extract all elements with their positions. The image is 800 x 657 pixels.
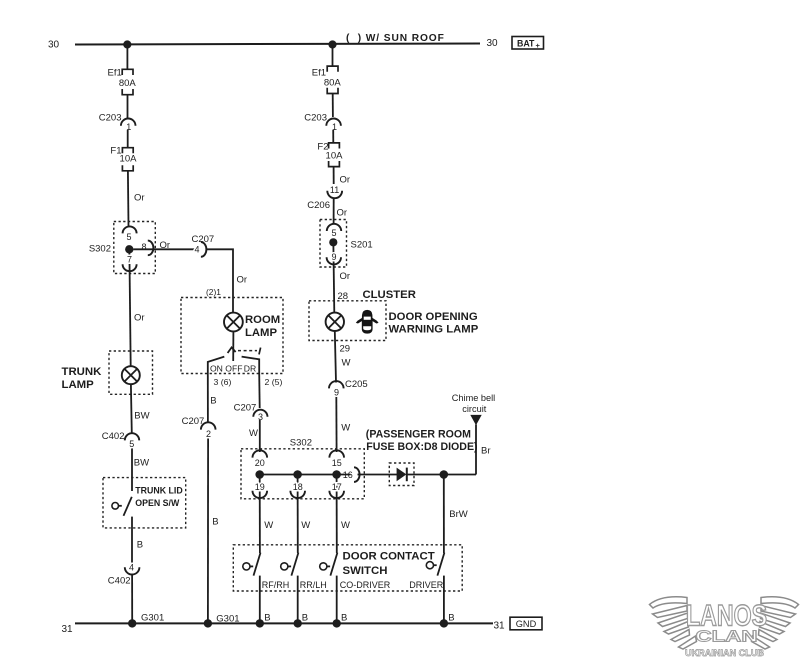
svg-text:2 (5): 2 (5) [265,377,283,387]
svg-text:GND: GND [516,619,537,629]
svg-text:B: B [210,395,216,406]
wire RF/RH to ground, colour B [260,576,271,624]
ground junction CO-DRIVER [333,619,341,627]
svg-text:circuit: circuit [462,404,486,414]
node splice dot 15/17 [332,470,341,479]
svg-text:W: W [301,520,310,531]
svg-text:+: + [536,41,541,50]
wire C402-5 to trunk lid switch, colour BW [132,445,149,492]
svg-text:Or: Or [160,240,171,251]
switch: door contact DRIVER [426,553,444,576]
svg-text:C207: C207 [234,402,257,413]
svg-text:5: 5 [331,228,336,238]
svg-text:20: 20 [255,458,265,468]
label (PASSENGER ROOM FUSE BOX:D8 DIODE) [366,428,478,453]
wire diode to chime bell circuit [407,474,476,476]
fuse Ef1 (left) 80A [108,68,137,95]
S302 pin 19 [253,482,268,498]
wiper travel dashes [238,348,261,355]
switch: door contact CO-DRIVER [320,553,338,576]
S302 pin 7 [123,255,137,272]
svg-text:5: 5 [126,232,131,242]
svg-text:B: B [212,516,218,527]
svg-text:18: 18 [293,482,303,492]
wire F2 to connector 11, colour Or [334,167,350,186]
svg-text:S201: S201 [351,240,373,251]
wire switch ON leg to C207-2, colour B [208,374,217,423]
door contact switch box [233,545,462,591]
svg-text:B: B [448,612,454,623]
wire switch DR leg to C207-3 [258,374,261,409]
node splice dot 18 [293,470,302,479]
svg-text:C203: C203 [304,113,327,124]
labels ON OFF DR [210,363,256,373]
svg-text:OPEN S/W: OPEN S/W [135,498,180,508]
svg-text:ON: ON [210,363,223,373]
switch: door contact RR/LH [281,553,299,576]
svg-text:Or: Or [340,271,351,282]
ground G301 (room lamp) [204,614,240,628]
svg-text:FUSE BOX:D8 DIODE): FUSE BOX:D8 DIODE) [366,441,477,453]
svg-text:31: 31 [494,620,506,631]
connector C402 pin 5 [102,431,139,449]
wire CO-DRIVER to ground, colour B [337,576,348,624]
splice box S201 [320,220,373,268]
wire C402-4 to ground [131,574,133,623]
svg-text:G301: G301 [216,614,239,625]
node 31 ground bus [62,620,506,635]
svg-text:C207: C207 [182,416,205,427]
node 30 battery bus [48,38,498,50]
svg-text:C206: C206 [307,200,330,211]
BAT+ terminal box [512,37,544,51]
svg-text:B: B [137,540,143,551]
splice box S302 (left) [89,222,155,274]
ground junction RF/RH [256,619,264,627]
svg-text:(PASSENGER ROOM: (PASSENGER ROOM [366,428,471,440]
wire lamp to switch wiper [232,331,234,361]
S302 pin 15 [329,450,344,468]
connector C206 pin 11 [307,185,342,211]
S302 pin 18 [290,482,305,498]
svg-text:DOOR CONTACT: DOOR CONTACT [343,551,435,563]
svg-text:DRIVER: DRIVER [409,580,444,590]
GND terminal box [510,617,542,630]
wire S302-17 to door switch CO-DRIVER, colour W [337,479,350,554]
wire RR/LH to ground, colour B [298,576,308,624]
wire up to chime bell, colour Br [476,425,491,475]
svg-text:BrW: BrW [449,509,468,520]
S302 pin 17 [329,482,344,498]
wire S302-19 to door switch RF/RH, colour W [260,479,274,554]
svg-text:10A: 10A [326,151,344,162]
svg-text:CLAN: CLAN [696,629,758,646]
svg-text:Or: Or [237,275,248,286]
svg-text:3 (6): 3 (6) [214,377,232,387]
svg-text:TRUNK LID: TRUNK LID [135,486,182,496]
label DOOR CONTACT SWITCH [343,551,435,577]
svg-text:C205: C205 [345,379,368,390]
wire S302-18 to door switch RR/LH, colour W [298,479,311,554]
wire F1 to splice S302, colour Or [128,171,145,226]
wire C203 to fuse F1 [127,130,129,148]
off-page arrow to chime bell circuit [470,415,481,425]
svg-text:WARNING LAMP: WARNING LAMP [389,323,479,335]
lamp: door opening warning lamp [326,313,344,331]
svg-text:W: W [341,422,350,433]
svg-text:C402: C402 [108,576,131,587]
svg-text:30: 30 [48,39,60,50]
switch wiper arrow (lamp switch) [228,347,236,353]
wire Ef1 to C203 middle [332,94,334,118]
svg-text:15: 15 [332,458,342,468]
svg-text:CO-DRIVER: CO-DRIVER [340,580,391,590]
S201 pin 5 [327,224,341,238]
wire bus to fuse Ef1 left [126,45,128,69]
svg-text:ROOM: ROOM [245,314,280,326]
connector C207 pin 2 [182,416,216,439]
wire C205 to S302-15, colour W [336,392,350,452]
wire DRIVER to ground, colour B [444,576,455,624]
labels RF/RH RR/LH CO-DRIVER DRIVER [262,580,444,590]
svg-text:30: 30 [487,38,499,49]
fuse Ef1 (middle) 80A [312,66,342,93]
svg-text:(2)1: (2)1 [206,287,221,297]
svg-text:DOOR OPENING: DOOR OPENING [389,311,478,323]
connector C205 pin 9 [329,379,368,397]
svg-text:RF/RH: RF/RH [262,580,290,590]
connector C203 pin 1 (left) [99,113,136,133]
wire junction to door switch DRIVER, colour BrW [444,475,468,554]
wire C203 to fuse F2 [332,130,334,143]
svg-text:W: W [249,428,258,439]
svg-text:OFF: OFF [225,363,242,373]
svg-text:C402: C402 [102,431,125,442]
svg-text:W: W [264,520,273,531]
svg-text:BAT: BAT [517,39,535,49]
svg-text:4: 4 [129,562,134,572]
svg-text:2: 2 [206,429,211,439]
wire bus to fuse Ef1 middle [332,45,334,67]
wire cluster pin 29 to C205, colour W [335,331,351,383]
S201 pin 9 [327,252,341,265]
svg-text:CLUSTER: CLUSTER [363,289,416,301]
svg-text:9: 9 [334,387,339,397]
svg-text:31: 31 [62,624,74,635]
wire Ef1 to C203 left [127,95,129,119]
svg-text:10A: 10A [120,153,138,164]
connector C203 pin 1 (middle) [304,113,341,133]
svg-text:LAMP: LAMP [245,327,277,339]
ground junction DRIVER [440,619,448,627]
connector C207 pin 4 [192,234,215,257]
label DOOR OPENING WARNING LAMP [389,311,479,336]
svg-text:4: 4 [194,245,199,255]
ground G301 (trunk) [128,613,164,628]
wire S302-7 down to trunk lamp, colour Or [129,253,144,367]
svg-text:RR/LH: RR/LH [300,580,327,590]
svg-text:17: 17 [332,482,342,492]
svg-text:11: 11 [330,185,339,195]
svg-text:Ef1: Ef1 [108,68,122,79]
wire S201 to cluster, colour Or [333,246,350,313]
svg-text:S302: S302 [290,438,312,449]
wire S302-16 to diode [358,474,398,476]
svg-text:Or: Or [134,313,145,324]
lamp: room lamp [224,313,243,332]
diode D8 [397,468,407,482]
trunk lamp box [109,351,153,394]
wire S302-8 to C207-4 , colour Or [133,240,194,251]
svg-text:Chime bell: Chime bell [452,393,495,403]
S302 pin 20 [253,450,268,468]
switch contact arm DR (right) [242,357,260,374]
junction on bus (left branch) [123,40,131,48]
trunk lid switch box [103,478,186,528]
svg-text:80A: 80A [324,78,342,89]
svg-text:Or: Or [134,193,145,204]
wire C206 to splice S201, colour Or [334,198,347,224]
svg-text:Or: Or [340,175,351,186]
icon car with open doors [356,310,379,334]
svg-text:19: 19 [255,482,265,492]
wire trunk lamp to C402-5, colour BW [131,384,150,434]
wire C207-4 to room lamp, colour Or [206,249,247,313]
S302 pin 16 [343,467,360,482]
svg-text:( ) W/ SUN ROOF: ( ) W/ SUN ROOF [346,33,445,44]
connector C402 pin 4 [108,562,140,586]
svg-text:W: W [342,358,351,369]
fuse F2 10A [317,142,343,167]
node splice dot S201 [329,238,337,246]
wire C207-3 to S302-20, colour W [249,420,260,452]
svg-text:BW: BW [134,458,149,469]
splice box S302 (bottom) [241,438,364,499]
svg-text:UKRAINIAN CLUB: UKRAINIAN CLUB [685,648,764,657]
svg-text:SWITCH: SWITCH [343,565,388,577]
svg-text:8: 8 [141,242,146,252]
svg-text:DR: DR [244,363,256,373]
svg-text:B: B [302,612,308,623]
connector C207 pin 3 [234,402,268,422]
splice bus wire [260,474,351,476]
cluster box [309,301,386,341]
switch contact arm ON (left) [208,357,225,374]
svg-text:TRUNK: TRUNK [62,366,103,378]
lamp: trunk lamp [122,366,140,384]
room lamp box [181,298,283,374]
svg-text:Or: Or [337,208,348,219]
svg-text:BW: BW [134,411,149,422]
label TRUNK LAMP [62,366,103,391]
svg-text:B: B [264,612,270,623]
node splice dot 20/19 [255,470,264,479]
svg-text:16: 16 [343,470,353,480]
fuse F1 10A [110,146,137,171]
svg-text:G301: G301 [141,613,164,624]
svg-text:W: W [341,520,350,531]
switch: door contact RF/RH [243,553,261,576]
svg-text:C203: C203 [99,113,122,124]
svg-text:S302: S302 [89,244,111,255]
junction on bus (middle branch) [328,40,336,48]
ground junction RR/LH [294,619,302,627]
S302 pin 8 [141,241,153,256]
svg-text:LAMP: LAMP [62,379,95,391]
svg-text:80A: 80A [119,78,137,89]
svg-text:7: 7 [127,255,132,265]
svg-text:Br: Br [481,445,491,456]
svg-text:29: 29 [340,343,351,354]
svg-text:9: 9 [331,252,336,262]
wire trunk lid switch to C402-4, colour B [132,517,143,565]
switch: trunk lid open s/w [112,497,132,516]
label ROOM LAMP [245,314,280,339]
label Chime bell circuit [452,393,495,414]
svg-text:5: 5 [129,439,134,449]
logo LANOS CLAN [650,597,799,657]
svg-text:B: B [341,612,347,623]
wire C207-2 to ground, colour B [208,434,219,624]
node splice dot S302 left [125,245,133,253]
label TRUNK LID OPEN S/W [135,486,182,508]
S302 pin 5 [123,226,137,242]
node junction diode/driver [440,470,449,479]
diode D8 box [389,463,414,486]
